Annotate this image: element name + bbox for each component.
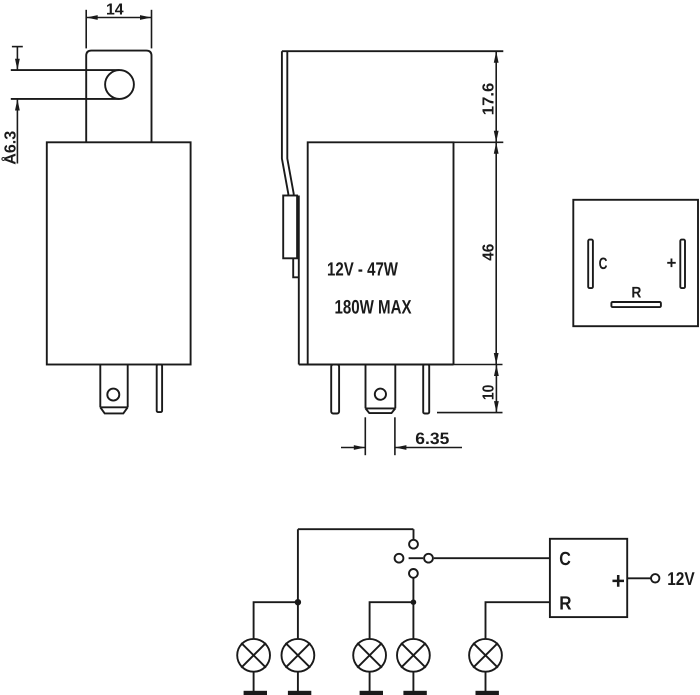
side view right pin [423,365,429,414]
lamp L4 [397,639,430,672]
dimension 14 arrows [86,15,98,20]
supply terminal circle [651,574,659,582]
wire lamp L3 branch [370,602,414,638]
dimension 6.3 arrows [15,59,20,71]
side view bracket top edge / extension line [282,50,503,52]
svg-text:C: C [559,549,571,570]
dimension 6.3 top tick [12,46,23,48]
wire rail to switch top [413,529,415,539]
dimension 6.35 extension lines [364,417,366,455]
dimension 10 line [495,365,497,413]
side view bracket inner line [287,51,293,195]
svg-text:+: + [667,254,677,273]
svg-text:17.6: 17.6 [480,83,497,116]
dimension 6.35 lines [341,447,365,449]
switch S1 bottom contact [409,569,418,578]
ground stub L5 [485,672,487,692]
dimension 14 extension lines [85,10,87,49]
ground L3 [360,691,383,695]
dimension 10 bottom extension line [437,412,503,414]
side view body [299,142,454,364]
ground stub L3 [369,672,371,692]
switch S1 left contact [395,554,404,563]
svg-text:R: R [559,593,572,614]
lamp L2 [282,639,315,672]
dimension 17.6 arrows [494,51,499,63]
svg-text:10: 10 [480,385,497,401]
wire lamp L2 to top rail [297,529,299,638]
wire lamp L1 branch [254,602,298,638]
pinout square [573,200,698,326]
pinout slot plus [680,240,685,289]
side view left pin [331,365,339,414]
side view pin hole [375,389,386,400]
flasher unit box [550,539,627,617]
wire flasher plus to supply [627,577,651,579]
junction node A [295,599,301,605]
lamp L3 [353,639,386,672]
wire switch bottom to lamp L4 [412,578,414,638]
switch S1 top contact [409,540,418,549]
svg-text:12V - 47W: 12V - 47W [327,260,398,281]
switch S1 bridge [409,557,424,559]
wire flasher R to lamp L5 [486,602,550,638]
front view right pin [157,365,162,413]
svg-text:6.35: 6.35 [415,430,449,448]
pinout slot C [588,240,593,289]
front view center terminal [100,365,127,414]
dimension 14 line [86,17,151,19]
svg-text:14: 14 [106,1,124,18]
svg-text:Å6.3: Å6.3 [0,131,19,165]
front view mounting tab [86,51,151,143]
dimension 6.3 upper line [16,47,18,71]
dimension 17.6 line [495,51,497,142]
ground L2 [288,691,311,695]
side view bracket outer line [282,51,288,195]
front view relay body [47,142,191,364]
junction node B [411,599,417,605]
side view terminal step [293,258,299,277]
side view center pin [366,365,396,414]
body top extension line [454,141,504,143]
ground stub L2 [297,672,299,692]
mounting slot bottom line [11,98,120,100]
dimension 10 arrows [494,365,499,377]
svg-text:+: + [612,567,625,593]
ground L4 [403,691,426,695]
mounting hole [105,70,134,99]
front view terminal hole [107,389,119,401]
dimension 46 arrows [494,142,499,154]
wire switch to flasher C [434,557,550,559]
svg-text:180W MAX: 180W MAX [335,297,412,319]
wire top rail [298,528,414,530]
ground L5 [476,691,499,695]
svg-text:R: R [631,285,641,302]
side view terminal [283,196,297,259]
dimension 46 line [495,142,497,364]
side view body outer left wall [298,196,300,365]
svg-text:C: C [599,255,608,273]
dimension 6.3 lower line [16,99,18,164]
lamp L1 [237,639,270,672]
pinout slot R [611,302,661,307]
mounting slot top line [11,69,120,71]
ground L1 [244,691,267,695]
svg-text:46: 46 [480,244,497,261]
body bottom extension line [454,364,503,366]
ground stub L1 [253,672,255,692]
switch S1 right contact [424,554,433,563]
ground stub L4 [412,672,414,692]
lamp L5 [469,639,502,672]
svg-text:12V: 12V [667,568,695,589]
dimension 6.35 arrows [354,445,366,450]
